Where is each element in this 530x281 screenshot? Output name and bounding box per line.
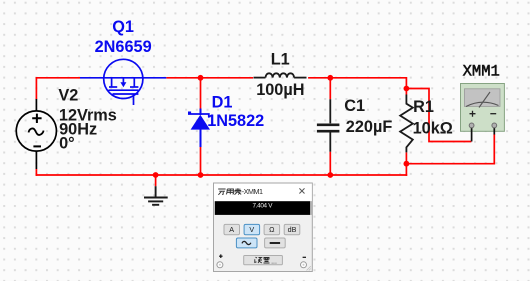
svg-text:7.404 V: 7.404 V <box>252 202 273 209</box>
svg-text:0°: 0° <box>59 135 75 153</box>
svg-text:dB: dB <box>288 225 297 234</box>
svg-text:V2: V2 <box>58 86 78 104</box>
svg-text:1N5822: 1N5822 <box>207 112 264 130</box>
svg-text:XMM1: XMM1 <box>463 63 500 81</box>
svg-text:A: A <box>229 225 234 234</box>
svg-text:Ω: Ω <box>269 225 275 234</box>
svg-text:Q1: Q1 <box>112 18 134 36</box>
svg-text:100µH: 100µH <box>256 81 304 99</box>
svg-text:...: ... <box>271 259 277 266</box>
svg-text:V: V <box>249 225 254 234</box>
svg-text:C1: C1 <box>344 97 365 115</box>
svg-text:-XMM1: -XMM1 <box>242 187 263 196</box>
svg-text:D1: D1 <box>212 94 233 112</box>
svg-text:220µF: 220µF <box>346 118 393 136</box>
svg-text:L1: L1 <box>271 51 290 69</box>
svg-text:2N6659: 2N6659 <box>95 38 152 56</box>
svg-text:10kΩ: 10kΩ <box>413 120 453 138</box>
svg-text:R1: R1 <box>413 98 434 116</box>
